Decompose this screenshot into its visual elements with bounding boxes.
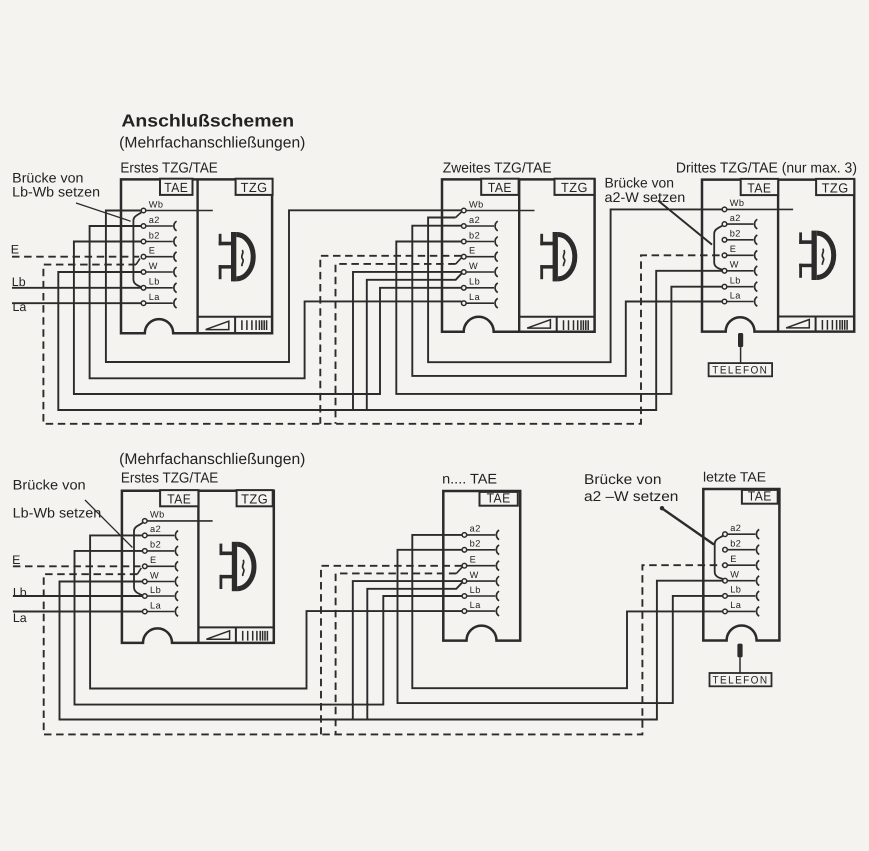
Drittes TZG/TAE (box 3) ringer bars [822,320,847,330]
terminal b2 (Erstes TZG/TAE (box 1)) [141,230,176,246]
terminal b2 (n-te TAE (box 2b)) [462,539,499,555]
svg-text:La: La [730,290,742,300]
svg-text:TAE: TAE [748,489,772,504]
bus wire E (bottom, dashed) [13,565,140,567]
svg-text:Drittes TZG/TAE (nur max. 3): Drittes TZG/TAE (nur max. 3) [676,161,857,177]
svg-text:TAE: TAE [167,492,191,507]
svg-text:TZG: TZG [241,492,268,507]
svg-text:TZG: TZG [241,180,268,195]
svg-text:Brücke von: Brücke von [13,477,86,492]
terminal b2 (Drittes TZG/TAE (box 3)) [722,229,757,245]
letzte TAE (box 3b) outer case [703,489,779,641]
svg-text:E: E [470,555,477,565]
TELEFON box (top) [709,363,773,376]
svg-text:a2: a2 [470,524,481,534]
terminal La (Drittes TZG/TAE (box 3)) [722,290,757,306]
svg-text:Anschlußschemen: Anschlußschemen [121,111,294,131]
telephone plug (box 3) [738,333,743,347]
wire W net (box1-box2-box3) [58,271,722,410]
Erstes TZG/TAE (box 1) ringer bars [242,320,267,330]
wire E net dashed (box1-box3) [43,255,722,423]
svg-text:E: E [730,554,737,564]
terminal a2 (Zweites TZG/TAE (box 2)) [462,215,498,231]
terminal W (Drittes TZG/TAE (box 3)) [722,260,757,276]
TZG bell/gong (Drittes TZG/TAE (box 3)) [799,231,834,280]
terminal E (letzte TAE (box 3b)) [723,554,760,570]
svg-text:W: W [149,261,158,271]
wire W riser into box2b W [353,581,462,719]
wire E out of box2b (dashed) [336,573,457,734]
wire a2(box1) to La(box2) [90,226,462,378]
svg-text:Wb: Wb [150,510,165,520]
TAE label (letzte TAE) [742,490,778,504]
svg-text:Lb: Lb [149,277,160,287]
wire Wb net: box1 Wb to box2 Wb [106,210,462,362]
Zweites TZG/TAE (box 2) outer case [442,179,595,331]
svg-text:W: W [150,570,159,580]
bus wire La (top) [12,302,141,304]
svg-text:TELEFON: TELEFON [712,365,768,377]
Erstes TZG/TAE (box 1b) TAE label [160,490,198,506]
svg-text:a2: a2 [730,213,741,223]
svg-text:a2 –W setzen: a2 –W setzen [584,489,678,505]
Erstes TZG/TAE (box 1b) ringer bars [243,631,268,641]
Zweites TZG/TAE (box 2) volume wedge [527,320,550,328]
svg-text:TAE: TAE [487,491,511,506]
wire a2(box2b) to La(letzte) [412,535,722,688]
terminal a2 (Erstes TZG/TAE (box 1b)) [143,524,179,540]
terminal Wb (Erstes TZG/TAE (box 1b)) [143,510,213,524]
terminal E (n-te TAE (box 2b)) [462,555,499,571]
terminal Lb (Erstes TZG/TAE (box 1)) [141,277,176,293]
svg-text:(Mehrfachanschließungen): (Mehrfachanschließungen) [119,451,305,468]
svg-text:La: La [730,600,742,610]
svg-text:Erstes TZG/TAE: Erstes TZG/TAE [121,471,219,487]
terminal a2 (Drittes TZG/TAE (box 3)) [722,213,757,229]
wire Wb(box2) to Wb(box3) [428,209,722,362]
svg-text:W: W [470,570,479,580]
terminal La (Zweites TZG/TAE (box 2)) [462,292,498,308]
terminal Lb (letzte TAE (box 3b)) [723,585,760,601]
wire E riser into box2 E (dashed) [320,256,461,424]
hook W out of box2b [367,582,462,719]
svg-text:Brücke von: Brücke von [12,170,83,185]
svg-text:Wb: Wb [469,199,484,209]
svg-text:La: La [469,292,481,302]
svg-text:Lb-Wb setzen: Lb-Wb setzen [12,185,100,200]
Erstes TZG/TAE (box 1) TAE/TZG divider [196,179,198,333]
svg-text:TZG: TZG [561,180,588,195]
svg-text:b2: b2 [470,539,481,549]
wire b2(box2b) to Lb(letzte) [398,550,723,703]
terminal E (Erstes TZG/TAE (box 1)) [141,246,176,262]
svg-text:Lb: Lb [730,585,741,595]
terminal a2 (Erstes TZG/TAE (box 1)) [141,215,176,231]
svg-text:Zweites TZG/TAE: Zweites TZG/TAE [443,160,552,176]
Zweites TZG/TAE (box 2) TZG label [555,179,595,195]
Drittes TZG/TAE (box 3) TAE label [741,179,778,195]
terminal b2 (Erstes TZG/TAE (box 1b)) [143,540,179,556]
hook Wb out of box2 [456,212,462,218]
svg-text:Brücke von: Brücke von [584,472,662,488]
TZG bell/gong (Erstes TZG/TAE (box 1)) [219,232,254,281]
svg-text:Lb: Lb [150,585,161,595]
svg-text:b2: b2 [469,230,480,240]
hook W out of box2 [367,273,462,410]
TAE label (box 2b) [480,492,518,506]
wire E out of box2 (dashed) [336,264,456,424]
Erstes TZG/TAE (box 1b) TZG bottom row [198,626,273,628]
terminal Lb (Zweites TZG/TAE (box 2)) [462,277,498,293]
wire a2(box1b) to La(box2b) [90,535,462,688]
Drittes TZG/TAE (box 3) TAE/TZG divider [777,180,779,332]
svg-text:TAE: TAE [488,180,512,195]
terminal E (Erstes TZG/TAE (box 1b)) [143,555,179,571]
TZG bell/gong (Erstes TZG/TAE (box 1b)) [220,542,255,591]
Drittes TZG/TAE (box 3) outer case [702,180,854,332]
wire b2(box1) to Lb(box2) [74,242,462,395]
svg-text:b2: b2 [730,229,741,239]
bus wire Lb (top) [12,287,141,289]
plug cord (box 3) [740,347,742,363]
svg-text:a2: a2 [730,523,741,533]
terminal La (n-te TAE (box 2b)) [462,600,499,616]
terminal W (Zweites TZG/TAE (box 2)) [462,261,498,277]
Drittes TZG/TAE (box 3) TZG bottom row [778,316,854,318]
terminal W (letzte TAE (box 3b)) [723,570,760,586]
svg-text:La: La [13,611,27,625]
terminal La (Erstes TZG/TAE (box 1b)) [143,600,179,616]
hook E out of box2b [456,567,462,574]
terminal Wb (Erstes TZG/TAE (box 1)) [141,199,213,213]
terminal W (n-te TAE (box 2b)) [462,570,499,586]
svg-text:a2: a2 [149,215,160,225]
hook E out of box1 [136,258,140,264]
svg-text:letzte TAE: letzte TAE [703,469,766,484]
svg-text:Lb: Lb [469,277,480,287]
wire E net dashed (bottom) [44,565,723,734]
Erstes TZG/TAE (box 1b) outer case [122,491,274,643]
Zweites TZG/TAE (box 2) TZG bottom row [519,316,594,318]
hook E out of box1b [137,568,141,574]
svg-text:b2: b2 [730,539,741,549]
svg-text:Wb: Wb [149,199,164,209]
svg-text:b2: b2 [150,540,161,550]
hook E out of box2 [456,257,462,264]
svg-text:(Mehrfachanschließungen): (Mehrfachanschließungen) [119,135,305,152]
svg-text:W: W [730,260,739,270]
terminal La (letzte TAE (box 3b)) [723,600,760,616]
bus wire La (bottom) [13,611,143,613]
Erstes TZG/TAE (box 1) TAE label [160,179,193,195]
svg-text:W: W [730,570,739,580]
Zweites TZG/TAE (box 2) ringer bars [564,320,589,330]
svg-text:n.... TAE: n.... TAE [442,470,497,486]
svg-text:E: E [730,244,737,254]
bridge Lb-Wb (box 1) [133,212,141,287]
Erstes TZG/TAE (box 1) TZG bottom row [198,316,273,318]
Erstes TZG/TAE (box 1) volume wedge [206,321,229,329]
svg-text:b2: b2 [149,230,160,240]
Drittes TZG/TAE (box 3) volume wedge [786,320,809,328]
wire b2(box1b) to Lb(box2b) [75,551,463,705]
bus wire Lb (bottom) [13,595,143,597]
svg-text:Lb: Lb [730,276,741,286]
svg-text:Erstes TZG/TAE: Erstes TZG/TAE [120,161,218,177]
pointer line to a2-W bridge (letzte TAE) [662,508,714,545]
svg-text:Wb: Wb [730,198,745,208]
svg-text:E: E [11,243,19,257]
svg-text:E: E [150,555,157,565]
terminal La (Erstes TZG/TAE (box 1)) [141,292,176,308]
terminal b2 (letzte TAE (box 3b)) [723,539,760,555]
terminal b2 (Zweites TZG/TAE (box 2)) [462,230,498,246]
terminal Lb (Erstes TZG/TAE (box 1b)) [143,585,179,601]
pointer line to Lb-Wb bridge (box 1) [76,203,131,221]
Erstes TZG/TAE (box 1b) TZG label [237,490,273,506]
svg-text:a2: a2 [469,215,480,225]
Drittes TZG/TAE (box 3) TZG label [816,179,854,195]
svg-text:Lb: Lb [13,585,27,599]
plug cord (letzte TAE) [739,657,741,673]
pointer line to a2-W bridge (box 3) [658,201,712,245]
svg-text:W: W [469,261,478,271]
terminal W (Erstes TZG/TAE (box 1)) [141,261,176,277]
pointer line to Lb-Wb bridge (box 1b) [85,500,132,548]
TZG bell/gong (Zweites TZG/TAE (box 2)) [540,232,575,281]
terminal Lb (Drittes TZG/TAE (box 3)) [722,276,757,292]
Erstes TZG/TAE (box 1) TZG label [236,179,273,195]
bridge a2-W (box 3) [714,226,722,270]
svg-text:La: La [13,300,27,314]
Erstes TZG/TAE (box 1) outer case [121,179,272,333]
terminal a2 (n-te TAE (box 2b)) [462,524,499,540]
n-te TAE (box 2b) outer case [443,491,520,641]
svg-text:Lb: Lb [470,585,481,595]
svg-text:La: La [149,292,161,302]
svg-text:TAE: TAE [164,180,188,195]
svg-text:a2-W setzen: a2-W setzen [605,189,686,205]
svg-text:E: E [469,246,476,256]
bus wire E (top, dashed) [12,256,139,258]
wire E riser into box2b E (dashed) [321,566,462,735]
svg-text:TZG: TZG [822,180,849,195]
wire b2(box2) to Lb(box3) [396,242,722,394]
terminal Wb (Zweites TZG/TAE (box 2)) [462,199,535,213]
svg-text:E: E [149,246,156,256]
TELEFON box (bottom) [710,673,772,686]
terminal E (Zweites TZG/TAE (box 2)) [462,246,498,262]
svg-text:La: La [470,600,482,610]
wire a2(box2) to La(box3) [412,226,722,376]
terminal a2 (letzte TAE (box 3b)) [723,523,760,539]
svg-text:E: E [12,553,20,567]
svg-text:Brücke von: Brücke von [605,174,675,190]
terminal W (Erstes TZG/TAE (box 1b)) [143,570,179,586]
Zweites TZG/TAE (box 2) TAE/TZG divider [518,179,520,331]
bridge Lb-Wb (box 1b) [134,523,143,596]
Zweites TZG/TAE (box 2) TAE label [481,179,518,195]
telephone plug (letzte TAE) [737,644,742,658]
bridge a2-W (letzte TAE) [715,536,723,579]
terminal E (Drittes TZG/TAE (box 3)) [722,244,757,260]
svg-text:TAE: TAE [747,180,771,195]
svg-text:La: La [150,600,162,610]
terminal Wb (Drittes TZG/TAE (box 3)) [722,198,793,212]
svg-text:TELEFON: TELEFON [713,675,769,687]
wire W net (bottom) [60,581,723,720]
svg-text:a2: a2 [150,524,161,534]
Erstes TZG/TAE (box 1b) TAE/TZG divider [197,491,199,643]
wire W riser into box2 W [353,272,462,410]
svg-text:Lb-Wb setzen: Lb-Wb setzen [13,505,102,520]
Erstes TZG/TAE (box 1b) volume wedge [206,631,229,639]
terminal Lb (n-te TAE (box 2b)) [462,585,499,601]
